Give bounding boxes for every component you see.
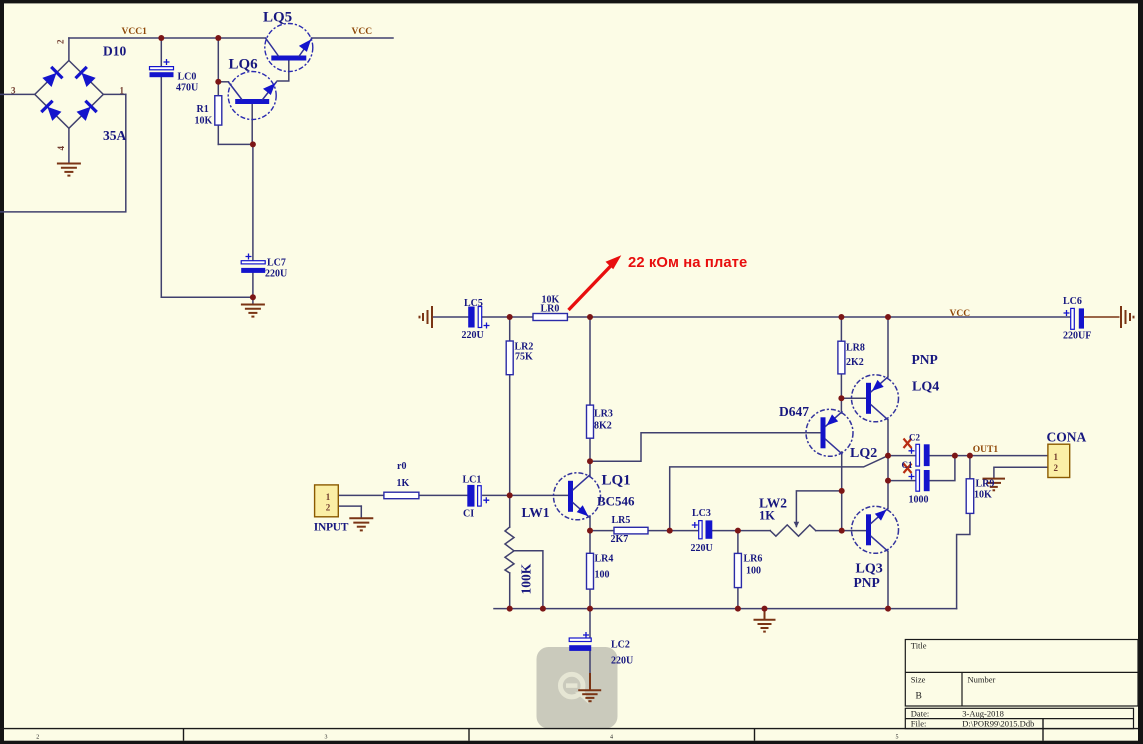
svg-text:LR4: LR4 <box>595 554 614 565</box>
svg-text:D10: D10 <box>103 44 126 59</box>
svg-text:220UF: 220UF <box>1063 331 1091 342</box>
svg-text:1K: 1K <box>759 509 775 523</box>
svg-text:2: 2 <box>1054 463 1059 473</box>
svg-text:Size: Size <box>911 675 926 685</box>
svg-text:220U: 220U <box>462 330 484 341</box>
svg-text:LR6: LR6 <box>744 554 763 565</box>
svg-text:LR9: LR9 <box>976 479 995 490</box>
svg-text:LC3: LC3 <box>692 508 711 519</box>
svg-text:8K2: 8K2 <box>594 421 612 432</box>
svg-text:220U: 220U <box>691 543 713 554</box>
svg-text:Title: Title <box>911 641 927 651</box>
svg-text:LQ1: LQ1 <box>602 473 631 489</box>
svg-text:D647: D647 <box>779 404 809 419</box>
svg-text:22 кОм на плате: 22 кОм на плате <box>628 255 747 271</box>
svg-text:PNP: PNP <box>854 575 880 590</box>
svg-text:C2: C2 <box>909 433 920 443</box>
svg-text:100: 100 <box>595 570 610 581</box>
svg-text:220U: 220U <box>265 269 287 280</box>
svg-text:LR3: LR3 <box>594 409 613 420</box>
svg-text:LC7: LC7 <box>267 258 286 269</box>
svg-text:2: 2 <box>36 735 39 741</box>
svg-text:CONA: CONA <box>1047 430 1087 445</box>
svg-text:3: 3 <box>11 85 16 95</box>
svg-text:1: 1 <box>120 85 125 95</box>
svg-text:D:\POR99\2015.Ddb: D:\POR99\2015.Ddb <box>962 719 1034 729</box>
svg-text:OUT1: OUT1 <box>973 445 999 455</box>
svg-text:LC1: LC1 <box>463 474 482 485</box>
svg-text:4: 4 <box>56 146 66 151</box>
svg-text:File:: File: <box>911 719 927 729</box>
svg-text:LC5: LC5 <box>464 298 483 309</box>
svg-text:LQ4: LQ4 <box>912 380 939 395</box>
svg-text:470U: 470U <box>176 83 198 94</box>
svg-text:5: 5 <box>896 735 899 741</box>
svg-text:220U: 220U <box>611 656 633 667</box>
svg-text:LQ2: LQ2 <box>850 446 877 461</box>
svg-text:1: 1 <box>326 492 331 502</box>
svg-text:LC0: LC0 <box>178 72 197 83</box>
svg-text:LW1: LW1 <box>522 505 550 520</box>
svg-text:2K2: 2K2 <box>846 357 864 368</box>
svg-text:LQ5: LQ5 <box>263 10 292 26</box>
svg-text:r0: r0 <box>397 461 406 472</box>
svg-text:10K: 10K <box>195 116 213 127</box>
svg-text:Date:: Date: <box>911 708 929 718</box>
svg-text:C1: C1 <box>902 460 913 470</box>
svg-text:2: 2 <box>326 502 331 512</box>
svg-text:2K7: 2K7 <box>611 534 629 545</box>
svg-text:R1: R1 <box>197 104 209 115</box>
svg-text:INPUT: INPUT <box>314 522 349 534</box>
svg-text:VCC1: VCC1 <box>122 27 148 37</box>
svg-text:LQ6: LQ6 <box>229 57 259 73</box>
svg-text:PNP: PNP <box>912 352 938 367</box>
svg-text:LR8: LR8 <box>846 343 865 354</box>
svg-text:B: B <box>916 692 922 702</box>
svg-text:1K: 1K <box>397 478 410 489</box>
svg-text:35A: 35A <box>103 128 127 143</box>
svg-text:100: 100 <box>746 566 761 577</box>
svg-text:LR5: LR5 <box>612 515 631 526</box>
svg-text:LR0: LR0 <box>541 304 560 315</box>
svg-text:10K: 10K <box>974 490 992 501</box>
svg-text:100K: 100K <box>519 563 534 594</box>
svg-text:CI: CI <box>463 508 474 519</box>
svg-text:Number: Number <box>968 675 996 685</box>
svg-text:LC2: LC2 <box>611 640 630 651</box>
svg-text:LC6: LC6 <box>1063 296 1082 307</box>
svg-text:2: 2 <box>56 39 66 44</box>
svg-text:BC546: BC546 <box>597 494 635 509</box>
svg-text:4: 4 <box>610 735 613 741</box>
svg-text:75K: 75K <box>515 352 533 363</box>
svg-text:3: 3 <box>325 735 328 741</box>
svg-text:VCC: VCC <box>950 309 971 319</box>
svg-text:VCC: VCC <box>352 27 373 37</box>
svg-text:1: 1 <box>1054 452 1059 462</box>
svg-text:1000: 1000 <box>909 495 929 506</box>
svg-text:3-Aug-2018: 3-Aug-2018 <box>962 708 1004 718</box>
